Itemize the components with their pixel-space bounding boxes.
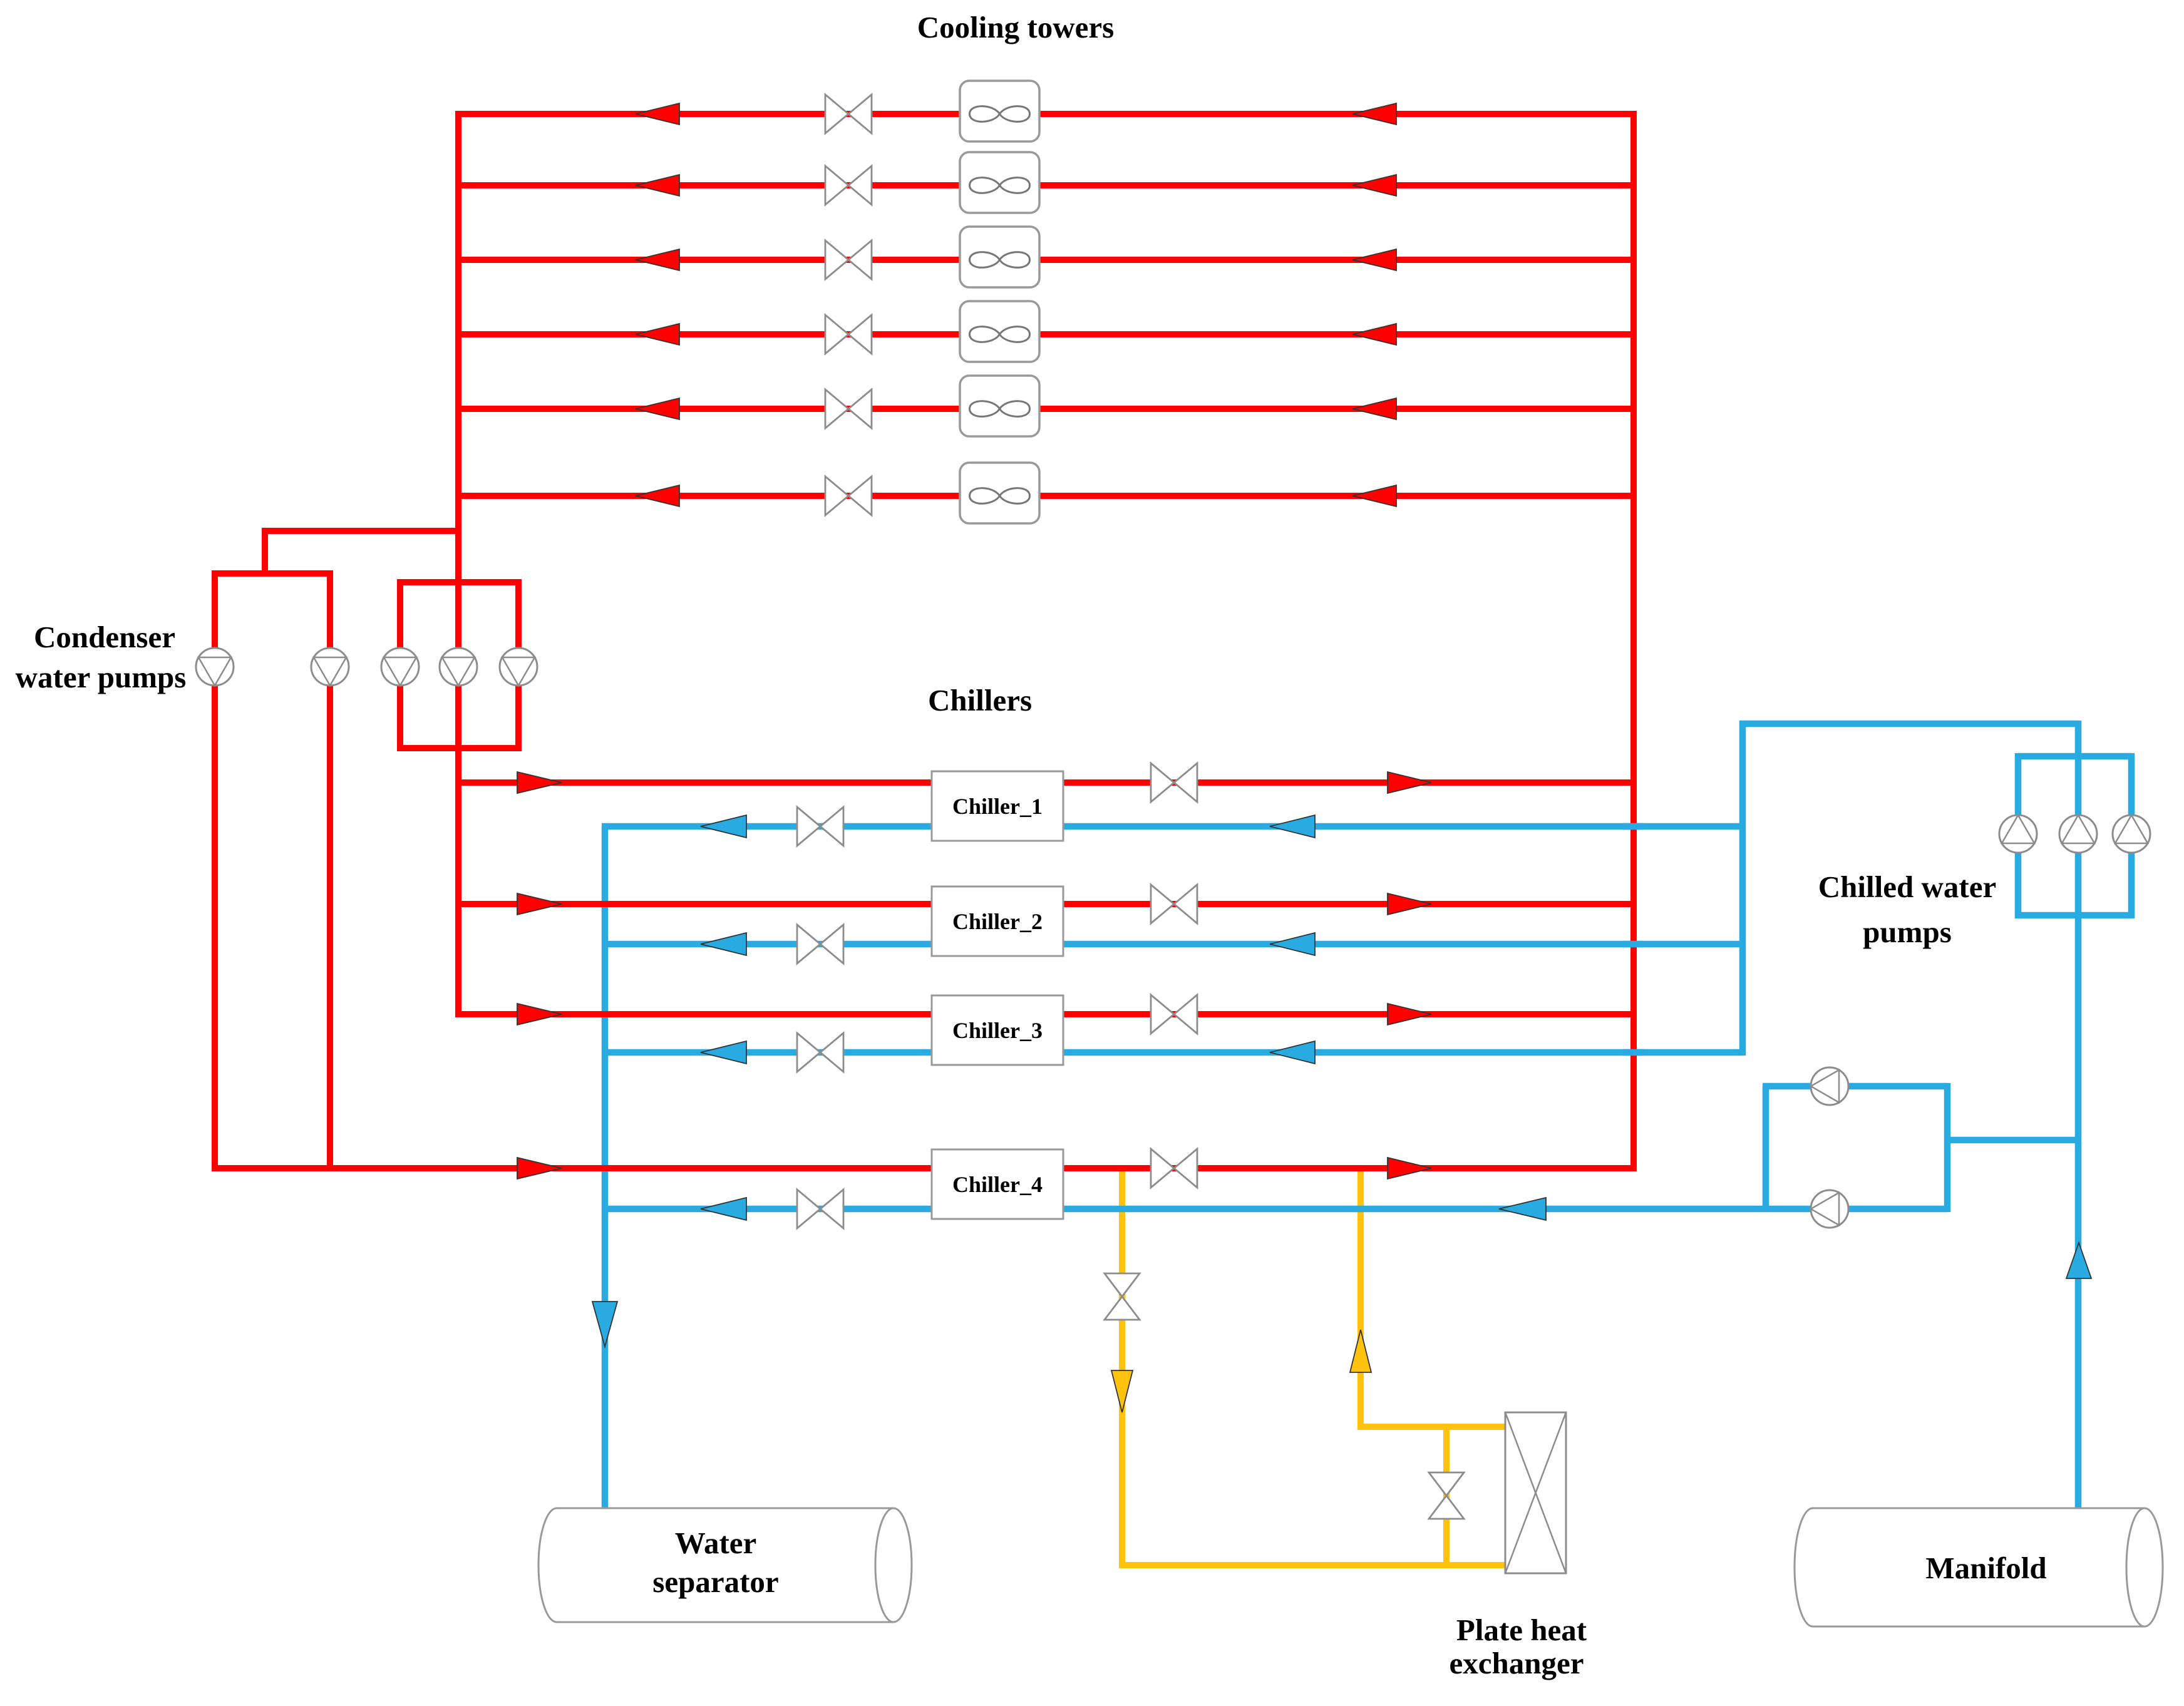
flow arrow left on cooling tower row 5 (west) <box>636 398 679 419</box>
flow arrow left on chilled row Chiller_1 (west) <box>701 815 746 838</box>
condenser water pump 2 <box>311 648 349 686</box>
flow arrow right on condenser row Chiller_2 (east) <box>1388 893 1431 915</box>
wire: chilled water row Chiller_4 <box>602 1206 1947 1213</box>
svg-text:separator: separator <box>652 1565 778 1599</box>
valve on condenser row Chiller_3 <box>1151 995 1197 1034</box>
wire: cooling tower row 2 pipe <box>455 182 1637 188</box>
wire: condenser pump 1 vertical <box>212 570 218 1171</box>
water separator tank <box>538 1508 912 1622</box>
flow arrow left on cooling tower row 5 (east) <box>1352 398 1396 419</box>
svg-text:water pumps: water pumps <box>16 660 187 694</box>
wire: chilled water pump group right branch <box>2128 753 2135 918</box>
flow arrow right on condenser row Chiller_1 (west) <box>517 772 562 793</box>
flow arrow left on cooling tower row 6 (east) <box>1352 485 1396 506</box>
flow arrow left on cooling tower row 3 (west) <box>636 249 679 270</box>
condenser water pump 3 <box>381 648 419 686</box>
wire: chilled water return main vertical to water separator <box>602 826 609 1510</box>
wire: chilled water supply vertical feeding chiller rows <box>1739 721 1746 1056</box>
flow arrow right on condenser row Chiller_3 (east) <box>1388 1004 1431 1025</box>
condenser water pump 1 <box>196 648 234 686</box>
chiller box Chiller_2 <box>932 886 1063 956</box>
chilled water pump 3 <box>2113 815 2150 853</box>
chilled water pump 1 <box>1999 815 2037 853</box>
svg-text:Chillers: Chillers <box>928 683 1032 717</box>
flow arrow left on cooling tower row 1 (east) <box>1352 103 1396 125</box>
wire: condenser water left riser <box>455 111 461 1017</box>
flow arrow down into water separator <box>592 1302 617 1347</box>
valve on condenser row Chiller_4 <box>1151 1149 1197 1188</box>
flow arrow up on glycol return <box>1350 1330 1371 1372</box>
flow arrow right on condenser row Chiller_2 (west) <box>517 893 562 915</box>
flow arrow left on cooling tower row 4 (east) <box>1352 324 1396 345</box>
flow arrow left on cooling tower row 3 (east) <box>1352 249 1396 270</box>
wire: condenser pump branch upper horizontal <box>265 528 461 534</box>
svg-text:exchanger: exchanger <box>1450 1646 1584 1680</box>
junction: chilled row 2 crossing right riser <box>1623 941 1644 948</box>
wire: cooling tower row 3 pipe <box>455 257 1637 263</box>
valve on glycol supply vertical <box>1105 1273 1140 1320</box>
junction: chilled row 1 crossing right riser <box>1623 823 1644 830</box>
flow arrow left on cooling tower row 4 (west) <box>636 324 679 345</box>
svg-text:Chiller_2: Chiller_2 <box>952 909 1043 934</box>
wire: cooling tower row 4 pipe <box>455 331 1637 337</box>
wire: chilled water row Chiller_2 <box>602 941 1743 948</box>
wire: condenser water right riser <box>1630 111 1637 1171</box>
bypass pump 1 <box>1811 1067 1848 1105</box>
svg-text:Chilled water: Chilled water <box>1818 870 1996 904</box>
wire: condenser pump pair header <box>212 570 333 577</box>
chilled water pump 2 <box>2059 815 2097 853</box>
flow arrow right on condenser row Chiller_4 (east) <box>1388 1158 1431 1179</box>
svg-text:Plate heat: Plate heat <box>1456 1613 1587 1647</box>
flow arrow left on chilled row Chiller_3 (east) <box>1270 1041 1315 1064</box>
flow arrow left on chilled row Chiller_1 (east) <box>1270 815 1315 838</box>
wire: condenser water row Chiller_4 <box>212 1165 1637 1171</box>
flow arrow left on chilled row Chiller_2 (east) <box>1270 933 1315 955</box>
svg-text:Chiller_3: Chiller_3 <box>952 1018 1043 1043</box>
chiller box Chiller_4 <box>932 1149 1063 1219</box>
valve on cooling tower row 4 <box>825 315 872 354</box>
flow arrow right on condenser row Chiller_1 (east) <box>1388 772 1431 793</box>
chiller box Chiller_1 <box>932 771 1063 841</box>
svg-text:pumps: pumps <box>1863 915 1952 949</box>
plate heat exchanger <box>1505 1412 1566 1573</box>
wire: condenser pump group right branch <box>515 579 522 751</box>
cooling tower 3 <box>960 227 1039 287</box>
flow arrow up from manifold <box>2066 1243 2091 1278</box>
cooling tower 5 <box>960 376 1039 436</box>
wire: cooling tower row 6 pipe <box>455 493 1637 499</box>
flow arrow left on cooling tower row 1 (west) <box>636 103 679 125</box>
wire: condenser water row Chiller_2 <box>455 901 1634 907</box>
cooling tower 6 <box>960 463 1039 523</box>
wire: chilled water row Chiller_1 <box>602 823 1743 830</box>
bypass pump 2 <box>1811 1190 1848 1228</box>
wire: condenser pump group left branch <box>397 579 403 751</box>
cooling tower 2 <box>960 152 1039 213</box>
flow arrow left on chilled row Chiller_4 (east) <box>1499 1198 1546 1220</box>
flow arrow left on chilled row Chiller_3 (west) <box>701 1041 746 1064</box>
wire: bypass pump group right vertical <box>1944 1083 1951 1212</box>
valve on cooling tower row 2 <box>825 166 872 205</box>
svg-text:Chiller_4: Chiller_4 <box>952 1172 1043 1197</box>
svg-text:Condenser: Condenser <box>34 620 175 654</box>
valve on cooling tower row 5 <box>825 389 872 428</box>
wire: condenser pump branch drop <box>262 528 268 577</box>
valve on chilled row Chiller_4 <box>797 1190 843 1228</box>
valve on condenser row Chiller_1 <box>1151 763 1197 802</box>
wire: bypass pump group top branch <box>1763 1083 1947 1090</box>
svg-text:Manifold: Manifold <box>1925 1551 2046 1585</box>
valve on cooling tower row 6 <box>825 476 872 515</box>
wire: condenser pump group bottom header <box>397 745 522 751</box>
flow arrow left on cooling tower row 2 (east) <box>1352 175 1396 196</box>
flow arrow left on cooling tower row 6 (west) <box>636 485 679 506</box>
wire: chilled water row Chiller_3 <box>602 1049 1743 1056</box>
wire: glycol bypass stub through valve to bottom pipe <box>1443 1424 1450 1568</box>
wire: glycol pipe vertical from Chiller_4 condenser line down <box>1119 1168 1125 1565</box>
flow arrow down on glycol supply <box>1111 1370 1133 1412</box>
wire: chilled water pump group left branch <box>2015 753 2022 918</box>
chiller box Chiller_3 <box>932 995 1063 1065</box>
valve on condenser row Chiller_2 <box>1151 885 1197 923</box>
valve on cooling tower row 1 <box>825 95 872 133</box>
wire: chilled water top header <box>1739 721 2078 727</box>
wire: chilled water pump group bottom header <box>2018 912 2131 919</box>
valve on chilled row Chiller_3 <box>797 1033 843 1072</box>
wire: condenser pump 2 vertical <box>327 570 333 1171</box>
wire: bypass pump group connector to main vertical <box>1944 1137 2081 1144</box>
wire: bypass pump group left vertical <box>1763 1086 1769 1212</box>
wire: chilled water main vertical from manifold <box>2075 721 2082 1510</box>
flow arrow right on condenser row Chiller_3 (west) <box>517 1004 562 1025</box>
valve on chilled row Chiller_1 <box>797 807 843 846</box>
wire: cooling tower row 5 pipe <box>455 406 1637 412</box>
wire: glycol pipe horizontal into plate heat exchanger top <box>1357 1424 1507 1430</box>
flow arrow right on condenser row Chiller_4 (west) <box>517 1158 562 1179</box>
svg-text:Cooling towers: Cooling towers <box>917 10 1114 44</box>
manifold tank <box>1795 1508 2163 1626</box>
wire: glycol pipe vertical return from plate heat exchanger up <box>1357 1168 1364 1427</box>
flow arrow left on chilled row Chiller_4 (west) <box>701 1198 746 1220</box>
wire: condenser water row Chiller_1 <box>455 779 1634 786</box>
svg-text:Water: Water <box>675 1526 757 1560</box>
valve on cooling tower row 3 <box>825 240 872 279</box>
valve on chilled row Chiller_2 <box>797 925 843 963</box>
flow arrow left on cooling tower row 2 (west) <box>636 175 679 196</box>
condenser water pump 5 <box>500 648 537 686</box>
wire: chilled water pump group top header <box>2018 753 2131 760</box>
wire: condenser water row Chiller_3 <box>455 1011 1634 1017</box>
valve on glycol bypass stub <box>1429 1472 1464 1519</box>
condenser water pump 4 <box>440 648 477 686</box>
svg-text:Chiller_1: Chiller_1 <box>952 794 1043 819</box>
wire: condenser pump group top header <box>400 579 518 585</box>
cooling tower 1 <box>960 81 1039 141</box>
flow arrow left on chilled row Chiller_2 (west) <box>701 933 746 955</box>
cooling tower 4 <box>960 301 1039 362</box>
wire: cooling tower row 1 pipe <box>455 111 1637 117</box>
wire: glycol pipe bottom horizontal to plate heat exchanger <box>1119 1562 1507 1568</box>
junction: chilled row 3 crossing right riser <box>1623 1049 1644 1056</box>
